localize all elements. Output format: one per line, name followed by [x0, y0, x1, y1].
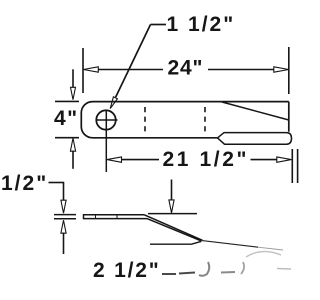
dim 24 right extension line	[288, 47, 290, 94]
dim 24 line left segment	[98, 69, 164, 71]
dim 24 left arrowhead	[83, 67, 98, 72]
svg-text:1/2": 1/2"	[1, 172, 48, 195]
watermark dash 3	[221, 271, 235, 274]
dim 4 bottom extension tick	[55, 137, 79, 139]
watermark dash 4	[277, 268, 291, 271]
side view tick 1	[95, 215, 97, 219]
dim 4 top arrowhead	[71, 87, 76, 99]
svg-text:4": 4"	[54, 107, 79, 130]
dim 0.5 top tick	[54, 214, 76, 216]
watermark dash 1	[162, 273, 176, 275]
side view surface extension line	[148, 213, 197, 215]
dim 0.5 down arrow line	[63, 183, 65, 202]
side view lower bend line	[147, 219, 201, 241]
hole vertical centerline / dim 21.5 left extension	[105, 110, 107, 172]
side view wedge bottom line	[150, 241, 202, 244]
side view upper bend line	[144, 215, 203, 241]
bend dashed line 2	[204, 107, 206, 133]
dim 4 bottom arrowhead	[70, 138, 75, 151]
hole circle	[96, 110, 115, 129]
side view bar left cap	[83, 214, 85, 219]
bend dashed line 1	[144, 107, 146, 133]
side view tip fade	[258, 247, 283, 250]
watermark top arc	[246, 251, 281, 257]
dim 24 left extension line	[82, 48, 84, 93]
leader tail	[151, 24, 167, 26]
svg-text:1 1/2": 1 1/2"	[167, 13, 236, 36]
side view tick 2	[116, 215, 118, 219]
side view down arrowhead	[169, 200, 174, 213]
dim 21.5 line left segment	[121, 159, 159, 161]
dim 4 top arrow line	[72, 69, 74, 88]
side view down arrow line	[171, 180, 173, 201]
svg-text:24": 24"	[168, 57, 204, 80]
watermark hook	[199, 262, 209, 276]
dim 4 bottom arrow line	[72, 151, 74, 169]
dim 0.5 up arrowhead	[61, 220, 66, 233]
leader arrowhead	[110, 97, 117, 109]
dim 21.5 right extension line 2	[297, 149, 299, 183]
dim 0.5 leader tail	[49, 182, 65, 184]
leader line	[116, 25, 151, 98]
watermark curve	[241, 262, 244, 274]
hole horizontal centerline	[96, 119, 118, 121]
svg-text:21 1/2": 21 1/2"	[163, 148, 250, 171]
dim 24 right arrowhead	[274, 67, 289, 72]
dim 4 top extension tick	[55, 100, 79, 102]
cutting edge capsule	[218, 133, 292, 145]
side view bar bottom	[84, 218, 148, 220]
dim 0.5 down arrowhead	[61, 200, 66, 213]
dim 21.5 line right segment	[251, 159, 278, 161]
side view bar top	[84, 214, 145, 216]
blade outline top view	[81, 102, 288, 138]
watermark dash 2	[179, 273, 195, 274]
side view tapering tip line	[202, 241, 258, 248]
dim 0.5 up arrow line	[63, 233, 65, 255]
blade bevel line	[222, 102, 289, 120]
dim 24 line right segment	[208, 69, 275, 71]
dim 21.5 right extension line 1	[291, 149, 293, 183]
dim 21.5 right arrowhead	[277, 157, 292, 162]
dim 21.5 left arrowhead	[107, 157, 122, 162]
svg-text:2 1/2": 2 1/2"	[93, 259, 160, 282]
dim 0.5 bottom tick	[54, 218, 76, 220]
